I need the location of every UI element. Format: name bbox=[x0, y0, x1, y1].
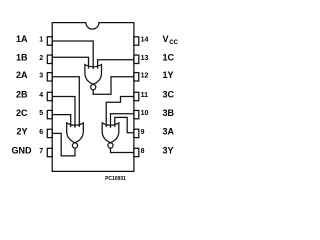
svg-text:4: 4 bbox=[39, 92, 43, 99]
pin 11 box bbox=[134, 92, 139, 100]
svg-text:3B: 3B bbox=[163, 108, 175, 118]
svg-text:9: 9 bbox=[141, 129, 145, 136]
svg-text:PC10931: PC10931 bbox=[105, 176, 126, 182]
pin 1 box bbox=[47, 37, 52, 45]
svg-text:2: 2 bbox=[39, 55, 43, 62]
IC body outline with notch bbox=[52, 23, 134, 172]
svg-text:5: 5 bbox=[39, 110, 43, 117]
pin 14 box bbox=[134, 37, 139, 45]
svg-text:3C: 3C bbox=[163, 90, 175, 100]
svg-text:3: 3 bbox=[39, 72, 43, 79]
svg-text:12: 12 bbox=[141, 72, 149, 79]
wire gate U3 output to pin8 3Y bbox=[111, 148, 134, 152]
svg-text:2C: 2C bbox=[16, 108, 28, 118]
pin 8 box bbox=[134, 148, 139, 156]
wire pin1 1A to gate U1 input bbox=[52, 41, 93, 69]
svg-text:1C: 1C bbox=[163, 53, 175, 63]
NOR gate U1 body bbox=[85, 65, 102, 85]
svg-text:14: 14 bbox=[141, 37, 149, 44]
svg-text:2Y: 2Y bbox=[16, 127, 27, 137]
svg-text:3A: 3A bbox=[163, 127, 175, 137]
svg-text:1: 1 bbox=[39, 37, 43, 44]
svg-text:11: 11 bbox=[141, 92, 149, 99]
pin 7 box bbox=[47, 148, 52, 156]
wire pin2 1B to gate U1 input bbox=[52, 57, 88, 68]
svg-text:GND: GND bbox=[12, 146, 33, 156]
pin 9 box bbox=[134, 129, 139, 137]
wire pin10 3B to gate U3 input bbox=[111, 114, 134, 128]
pin 4 box bbox=[47, 92, 52, 100]
wire pin11 3C to gate U3 input bbox=[106, 97, 134, 128]
NOR gate U3 output bubble bbox=[108, 143, 113, 148]
svg-text:10: 10 bbox=[141, 110, 149, 117]
pin 3 box bbox=[47, 73, 52, 81]
wire pin5 2C to gate U2 input bbox=[52, 115, 70, 127]
svg-text:6: 6 bbox=[39, 129, 43, 136]
svg-text:2B: 2B bbox=[16, 90, 28, 100]
wire pin4 2B to gate U2 input bbox=[52, 97, 75, 128]
svg-text:1A: 1A bbox=[16, 34, 28, 44]
svg-text:8: 8 bbox=[141, 148, 145, 155]
NOR gate U1 output bubble bbox=[91, 85, 96, 90]
wire pin13 1C to gate U1 input bbox=[98, 60, 134, 69]
NOR gate U3 body bbox=[102, 123, 119, 143]
pin 13 box bbox=[134, 55, 139, 63]
pin 12 box bbox=[134, 73, 139, 81]
pin 5 box bbox=[47, 110, 52, 118]
svg-text:1B: 1B bbox=[16, 53, 28, 63]
svg-text:2A: 2A bbox=[16, 70, 28, 80]
pin 2 box bbox=[47, 55, 52, 63]
svg-text:3Y: 3Y bbox=[163, 146, 174, 156]
NOR gate U2 output bubble bbox=[72, 143, 77, 148]
svg-text:1Y: 1Y bbox=[163, 70, 174, 80]
wire pin9 3A to gate U3 input bbox=[115, 117, 134, 132]
svg-text:7: 7 bbox=[39, 148, 43, 155]
pin 10 box bbox=[134, 110, 139, 118]
NOR gate U2 body bbox=[67, 123, 84, 143]
wire gate U2 output to pin6 2Y bbox=[52, 133, 75, 156]
svg-text:13: 13 bbox=[141, 55, 149, 62]
wire pin3 2A to gate U2 input bbox=[52, 77, 79, 127]
pin 6 box bbox=[47, 129, 52, 137]
wire gate U1 output to pin12 1Y bbox=[93, 77, 134, 95]
